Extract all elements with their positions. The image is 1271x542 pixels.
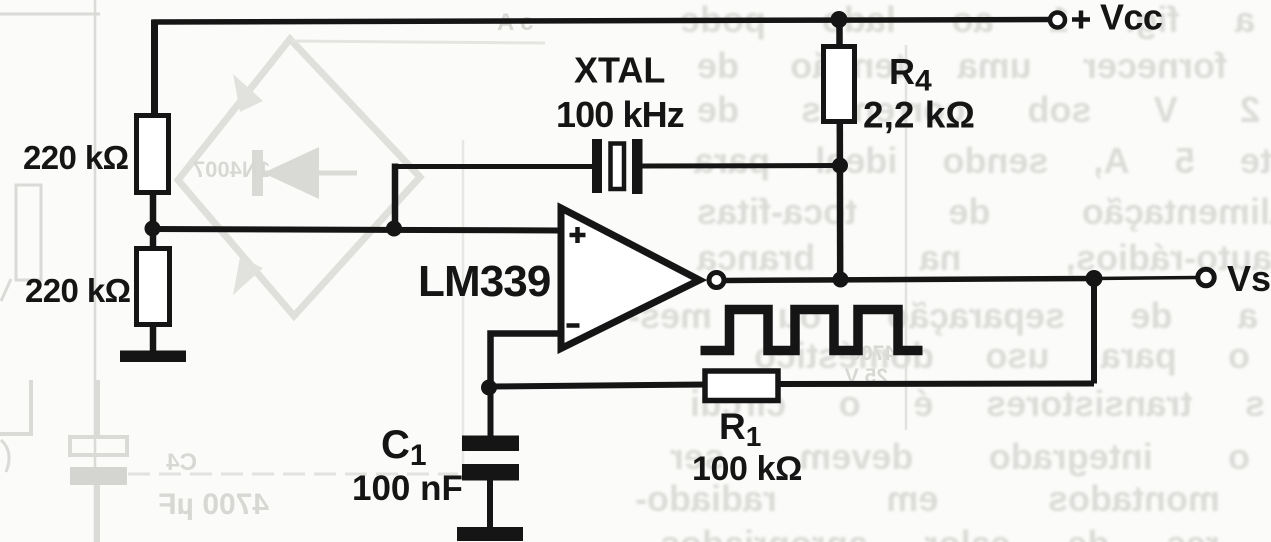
wire: junction to R1 left (489, 385, 707, 387)
wire: R2 bottom to divider node (150, 192, 157, 229)
svg-text:LM339: LM339 (418, 257, 550, 306)
wire: +Vcc top rail (153, 20, 1051, 23)
label: + Vcc (1072, 11, 1090, 29)
svg-text:R1: R1 (719, 406, 761, 452)
wire: feedback riser up to output (1091, 279, 1097, 384)
wire: R1 right to feedback riser (778, 381, 1094, 388)
wire: XTAL right terminal to R4 branch (643, 163, 841, 169)
svg-text:C1: C1 (381, 423, 427, 472)
node: output / R4 junction (833, 272, 849, 288)
ground: below C1 (457, 527, 523, 541)
terminal: +Vcc (1050, 13, 1065, 28)
resistor R4 2.2k (824, 47, 855, 122)
wire: R4 bottom through junction down to output wire (837, 121, 844, 280)
wire: R3 to ground (150, 324, 157, 352)
node: C1 / feedback junction (481, 380, 497, 396)
wire: divider node down to R3 (150, 229, 157, 249)
terminal: Vs output (1198, 269, 1214, 285)
wire: inverting input to C1 node (491, 334, 562, 388)
wire: junction to Vs terminal (1094, 278, 1198, 279)
wire: left branch vertical from rail to R2 (151, 20, 158, 118)
node: top rail junction at R4 (831, 11, 848, 28)
wire: C1 node down to C1 (488, 387, 494, 436)
svg-text:100 kHz: 100 kHz (556, 94, 684, 135)
svg-text:XTAL: XTAL (574, 50, 665, 91)
diamond bridge (178, 39, 420, 316)
wire: output to feedback junction (724, 279, 1094, 281)
wire: to XTAL left terminal (392, 164, 592, 169)
svg-text:220 kΩ: 220 kΩ (23, 139, 129, 176)
ground: below R3 (120, 351, 186, 363)
pin: inverting input - (567, 323, 580, 328)
pin: non-inverting input + (570, 227, 586, 243)
svg-text:Vcc: Vcc (1100, 0, 1162, 38)
node: output / feedback junction (1086, 270, 1103, 287)
node: junction to XTAL branch (386, 221, 402, 237)
wire: C1 to ground (487, 480, 493, 528)
svg-text:R4: R4 (889, 51, 932, 98)
crystal XTAL 100 kHz (592, 139, 643, 194)
wire: divider node to op-amp + input (153, 229, 562, 231)
svg-text:100 nF: 100 nF (352, 469, 463, 508)
node: divider junction (145, 221, 161, 237)
resistor R2 220k (upper left) (137, 116, 169, 193)
capacitor C1 100nF (462, 436, 519, 481)
wire: rail down to R4 (836, 20, 843, 48)
resistor R3 220k (lower left) (137, 249, 170, 325)
svg-text:220 kΩ: 220 kΩ (25, 272, 131, 309)
svg-text:100 kΩ: 100 kΩ (692, 450, 802, 488)
capacitor bleed bottom left (70, 437, 127, 455)
node: XTAL / R4 junction (832, 158, 848, 174)
svg-text:Vs: Vs (1227, 258, 1271, 299)
pin: output bubble (709, 273, 724, 288)
waveform: square wave symbol (701, 310, 923, 351)
resistor R1 100k (705, 371, 778, 401)
op-amp U1 LM339 (561, 208, 700, 349)
svg-text:2,2 kΩ: 2,2 kΩ (863, 95, 975, 136)
wire: junction up to XTAL level (392, 164, 399, 232)
